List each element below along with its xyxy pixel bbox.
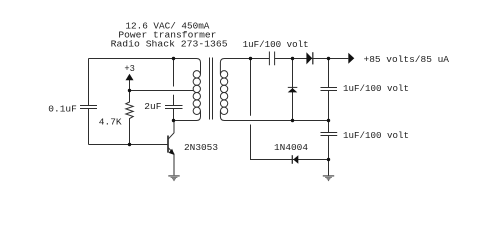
svg-text:1uF/100 volt: 1uF/100 volt	[343, 83, 409, 94]
svg-text:1uF/100 volt: 1uF/100 volt	[343, 130, 409, 141]
svg-text:+3: +3	[124, 63, 135, 74]
svg-text:4.7K: 4.7K	[99, 116, 122, 127]
svg-text:1uF/100 volt: 1uF/100 volt	[243, 39, 309, 50]
svg-text:+85 volts/85 uA: +85 volts/85 uA	[364, 54, 450, 65]
svg-text:2N3053: 2N3053	[184, 142, 218, 153]
svg-text:0.1uF: 0.1uF	[48, 103, 77, 114]
svg-text:1N4004: 1N4004	[274, 142, 308, 153]
svg-text:2uF: 2uF	[144, 101, 161, 112]
svg-text:Radio Shack 273-1365: Radio Shack 273-1365	[111, 39, 228, 50]
